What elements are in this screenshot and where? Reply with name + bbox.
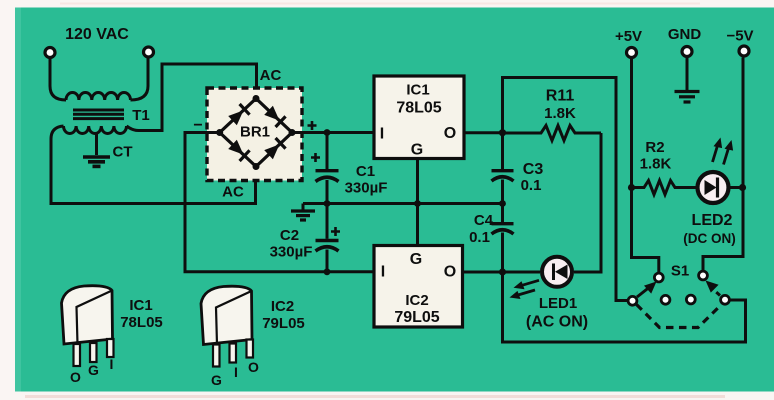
svg-text:O: O	[444, 125, 456, 142]
label plus C2	[331, 227, 340, 236]
ground GND terminal	[675, 92, 700, 103]
svg-text:78L05: 78L05	[120, 314, 163, 331]
junction C3 C4	[499, 200, 506, 207]
svg-text:O: O	[70, 369, 81, 385]
svg-text:AC: AC	[222, 184, 244, 201]
capacitor C3	[492, 133, 544, 204]
node plus	[289, 129, 296, 136]
package IC2 79L05	[201, 286, 305, 388]
svg-text:78L05: 78L05	[396, 100, 441, 117]
wire -5V rail to switch	[703, 58, 743, 271]
svg-text:I: I	[380, 126, 384, 143]
diamond edges	[220, 99, 292, 167]
ground CT	[83, 157, 110, 166]
diode top-left	[228, 104, 250, 126]
svg-text:AC: AC	[260, 67, 282, 84]
svg-text:1.8K: 1.8K	[640, 156, 672, 173]
diode top-right	[264, 105, 286, 127]
svg-text:+5V: +5V	[615, 28, 642, 45]
svg-text:C2: C2	[280, 227, 299, 244]
wire +5V rail to switch	[632, 59, 659, 272]
junction C2 bottom	[324, 268, 331, 275]
wire GND lead	[686, 58, 689, 90]
svg-text:GND: GND	[668, 26, 702, 43]
svg-text:R2: R2	[645, 139, 664, 156]
svg-text:T1: T1	[132, 107, 150, 124]
svg-text:79L05: 79L05	[394, 309, 439, 326]
svg-text:330µF: 330µF	[270, 244, 313, 261]
arrow pole right	[715, 291, 721, 296]
svg-text:330µF: 330µF	[345, 180, 388, 197]
capacitor C1	[311, 133, 387, 204]
secondary winding	[64, 126, 127, 134]
label plus C1	[311, 153, 320, 162]
resistor R2	[628, 139, 698, 195]
wire bridge minus to IC2 input	[185, 133, 374, 272]
wire secondary-right to bridge AC top	[127, 64, 257, 131]
terminal +5V	[627, 48, 637, 58]
diode bottom-left	[228, 139, 250, 161]
terminal -5V	[739, 46, 749, 56]
arrow pole left	[637, 288, 649, 298]
leg O	[74, 344, 81, 366]
bridge rectifier BR1	[207, 88, 302, 181]
leg I	[107, 339, 114, 357]
wire LED2 cathode to -5V rail	[729, 186, 744, 189]
junction IC1 output node	[499, 129, 506, 136]
svg-text:O: O	[444, 264, 456, 281]
svg-text:R11: R11	[546, 88, 575, 105]
svg-text:I: I	[110, 356, 114, 372]
wire bridge plus to IC1 input	[292, 131, 374, 134]
terminal 120VAC left	[45, 48, 55, 58]
svg-text:−5V: −5V	[726, 28, 753, 45]
capacitor C2	[270, 204, 340, 272]
contact upper-left	[654, 273, 663, 282]
junction regulators ground	[414, 200, 421, 207]
node minus	[216, 129, 223, 136]
switch S1	[628, 263, 729, 328]
svg-text:G: G	[211, 372, 222, 388]
svg-text:O: O	[248, 359, 259, 375]
svg-text:LED1: LED1	[539, 295, 577, 312]
contact middle-right	[686, 295, 695, 304]
junction LED1 C4 return	[499, 268, 506, 275]
svg-text:0.1: 0.1	[521, 177, 542, 194]
svg-text:CT: CT	[113, 144, 133, 161]
wire R11 bypass to switch	[503, 78, 629, 301]
junction R2 on +5V rail	[628, 184, 635, 191]
junction C1 mid rail	[324, 200, 331, 207]
leg O	[247, 340, 254, 358]
svg-text:S1: S1	[671, 263, 689, 280]
dashed mechanical linkage	[637, 305, 722, 328]
op IC1 regulator box	[374, 76, 464, 159]
wire center tap	[95, 133, 98, 155]
primary winding	[66, 92, 131, 100]
svg-text:1.8K: 1.8K	[544, 105, 576, 122]
svg-text:IC1: IC1	[406, 82, 429, 99]
label plus bridge output	[308, 121, 317, 130]
diode bottom-right	[264, 138, 286, 160]
wire IC1 ground pin	[416, 159, 419, 204]
junction C1 top	[324, 129, 331, 136]
leg G	[213, 345, 220, 367]
node AC bottom	[253, 163, 260, 170]
svg-text:G: G	[88, 362, 99, 378]
svg-text:G: G	[411, 142, 423, 159]
svg-text:C1: C1	[356, 163, 375, 180]
svg-text:I: I	[381, 264, 385, 281]
terminal 120VAC right	[144, 47, 154, 57]
svg-text:LED2: LED2	[692, 212, 733, 229]
svg-text:C4: C4	[474, 212, 494, 229]
contact lower-left	[628, 296, 637, 305]
wire IC1 output	[464, 131, 503, 134]
svg-text:79L05: 79L05	[262, 315, 305, 332]
light arrows LED2	[713, 138, 734, 165]
wire primary left lead	[50, 59, 66, 101]
svg-text:BR1: BR1	[240, 124, 270, 141]
svg-text:IC2: IC2	[405, 292, 428, 309]
wire primary right lead	[131, 58, 149, 100]
wire secondary-left to bridge AC bottom	[51, 126, 256, 204]
wire middle ground rail	[303, 202, 503, 205]
node AC top	[253, 95, 260, 102]
svg-text:0.1: 0.1	[469, 229, 490, 246]
wire IC2 output to LED1	[463, 271, 541, 274]
svg-text:C3: C3	[523, 161, 544, 178]
ground mid rail	[291, 204, 315, 221]
LED LED1	[510, 257, 589, 331]
dashed outline box	[207, 88, 302, 181]
capacitor C4	[469, 204, 513, 273]
svg-text:IC2: IC2	[271, 298, 294, 315]
junction LED2 -5V rail	[739, 184, 746, 191]
leg G	[90, 343, 97, 362]
resistor R11	[503, 88, 602, 141]
svg-text:IC1: IC1	[129, 297, 152, 314]
svg-text:(DC ON): (DC ON)	[683, 231, 736, 246]
terminal GND	[682, 47, 692, 57]
package IC1 78L05	[62, 286, 163, 385]
svg-text:(AC ON): (AC ON)	[526, 314, 588, 331]
light arrows LED1	[510, 280, 540, 299]
LED LED2	[683, 138, 746, 247]
svg-text:120 VAC: 120 VAC	[65, 26, 129, 43]
wire return bottom to switch	[503, 272, 746, 342]
svg-text:I: I	[234, 364, 238, 380]
contact upper-right	[699, 271, 708, 280]
op IC2 regulator box	[374, 246, 463, 328]
contact lower-right	[721, 295, 730, 304]
wire R11 to LED1	[574, 133, 601, 272]
core laminations	[73, 110, 124, 119]
contact middle-left	[661, 295, 670, 304]
leg I	[230, 344, 237, 363]
transformer T1	[50, 58, 148, 134]
wire IC2 ground pin	[416, 204, 419, 246]
svg-text:G: G	[410, 251, 422, 268]
